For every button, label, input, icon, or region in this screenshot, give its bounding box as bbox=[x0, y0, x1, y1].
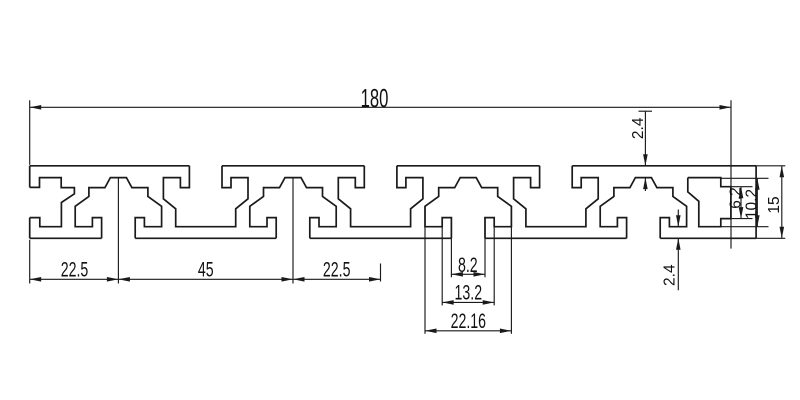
svg-text:22.5: 22.5 bbox=[61, 258, 89, 281]
svg-text:180: 180 bbox=[361, 83, 389, 113]
svg-text:22.5: 22.5 bbox=[323, 258, 351, 281]
svg-text:22.16: 22.16 bbox=[451, 309, 486, 332]
svg-text:2.4: 2.4 bbox=[662, 264, 679, 286]
svg-text:10.2: 10.2 bbox=[744, 189, 761, 219]
svg-text:2.4: 2.4 bbox=[630, 117, 647, 139]
svg-text:13.2: 13.2 bbox=[455, 281, 483, 304]
svg-text:6.2: 6.2 bbox=[727, 187, 744, 209]
svg-text:45: 45 bbox=[198, 258, 214, 281]
svg-text:8.2: 8.2 bbox=[458, 253, 478, 276]
svg-text:15: 15 bbox=[766, 196, 783, 213]
